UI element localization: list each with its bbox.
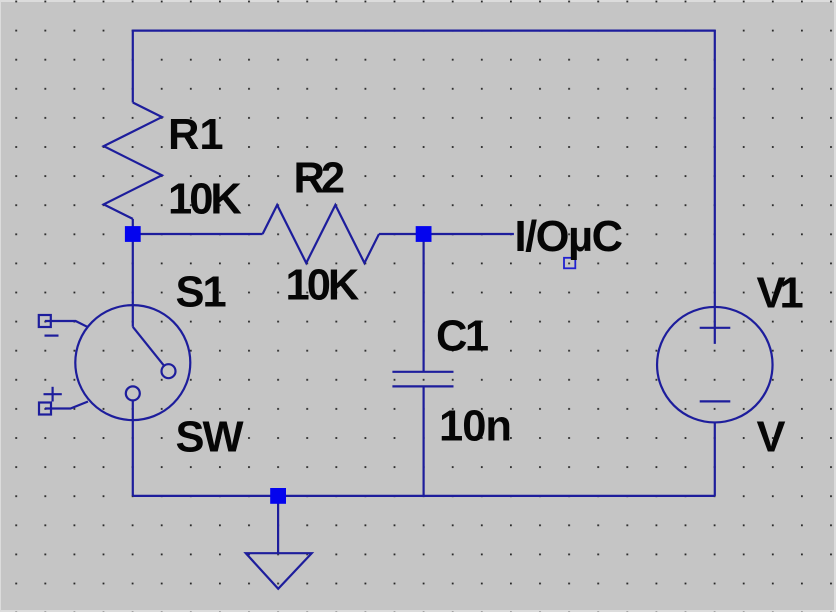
- wire contact B down to bottom net: [132, 400, 134, 496]
- minus polarity mark: [45, 335, 59, 337]
- wire left drop into R1: [132, 30, 134, 103]
- wire stub to net label I/OuC: [424, 233, 514, 235]
- wire R2 to node: [379, 233, 424, 235]
- wire bottom net: [133, 495, 715, 497]
- wire right drop into V1 plus: [714, 30, 716, 344]
- svg-text:10K: 10K: [168, 176, 242, 224]
- ground symbol triangle: [246, 553, 312, 589]
- svg-text:10K: 10K: [286, 262, 360, 310]
- wire lead terminal 2 to body: [45, 402, 88, 409]
- junction node at R1 / R2: [125, 226, 141, 242]
- switch S1 terminal pin 2 square: [39, 403, 51, 415]
- net label anchor square: [564, 258, 575, 269]
- svg-text:V1: V1: [757, 269, 803, 317]
- svg-text:S1: S1: [176, 268, 226, 316]
- capacitor C1 top plate: [392, 371, 453, 373]
- wire node down to C1: [423, 234, 425, 372]
- wire mid net junction to R2: [133, 233, 263, 235]
- svg-text:R2: R2: [294, 155, 344, 203]
- junction node at ground: [270, 488, 286, 504]
- wire V1 bottom to bottom net: [714, 423, 716, 496]
- switch S1 terminal pin 1 square: [39, 315, 51, 327]
- svg-text:R1: R1: [168, 111, 224, 159]
- V1 minus mark: [700, 400, 731, 402]
- junction node at R2 / C1: [416, 226, 432, 242]
- wire top net from R1 top to V1 top: [133, 30, 715, 32]
- svg-text:C1: C1: [436, 313, 488, 361]
- svg-text:SW: SW: [176, 414, 245, 462]
- switch S1 lever: [133, 327, 164, 366]
- switch S1 contact B: [126, 386, 140, 400]
- svg-text:I/OµC: I/OµC: [515, 213, 623, 261]
- wire C1 bottom to bottom net: [423, 386, 425, 496]
- svg-text:10n: 10n: [439, 403, 511, 451]
- resistor R1: [104, 103, 162, 219]
- capacitor C1 bottom plate: [392, 385, 453, 387]
- voltage source V1 circle: [657, 307, 773, 423]
- resistor R2: [263, 205, 379, 263]
- switch S1 contact A: [162, 364, 176, 378]
- svg-text:V: V: [757, 414, 786, 462]
- wire R1 bottom to switch pivot: [132, 219, 134, 327]
- wire lead terminal 1 to body: [45, 321, 88, 327]
- switch S1 body circle: [75, 305, 190, 420]
- wire ground stem: [277, 496, 279, 553]
- V1 plus mark: [700, 327, 731, 329]
- plus polarity mark: [44, 387, 62, 402]
